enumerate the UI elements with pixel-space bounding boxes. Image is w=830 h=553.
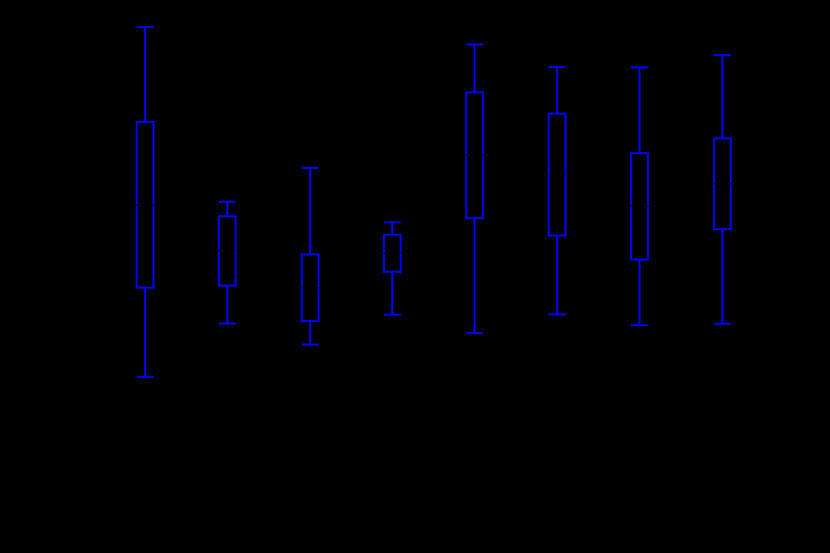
boxplot 1 whisker lower <box>144 288 146 377</box>
boxplot 6 median (black) <box>548 174 567 176</box>
boxplot 5 box <box>466 92 483 218</box>
boxplot 7 cap top <box>631 66 648 68</box>
boxplot 8 whisker upper <box>721 55 723 138</box>
boxplot 7 median (black) <box>630 205 649 207</box>
boxplot 6 cap bottom <box>549 313 566 315</box>
boxplot 7 box <box>631 153 648 259</box>
boxplot 3 whisker lower <box>309 321 311 345</box>
boxplot 8 box <box>714 138 731 229</box>
boxplot 2 cap top <box>219 201 236 203</box>
boxplot 2 whisker upper <box>226 202 228 217</box>
boxplot 5 median (black) <box>465 154 484 156</box>
boxplot 1 cap top <box>137 26 154 28</box>
boxplot 2 median (black) <box>218 250 237 252</box>
boxplot 3 whisker upper <box>309 168 311 255</box>
boxplot 1 box <box>137 122 154 288</box>
boxplot 8 whisker lower <box>721 229 723 324</box>
boxplot 3 cap top <box>302 167 319 169</box>
boxplot 3 cap bottom <box>302 344 319 346</box>
boxplot 7 cap bottom <box>631 324 648 326</box>
boxplot 6 whisker lower <box>556 236 558 315</box>
boxplot 8 median (black) <box>713 183 732 185</box>
boxplot 6 box <box>549 114 566 236</box>
boxplot 4 box <box>384 235 401 272</box>
boxplot 8 cap bottom <box>714 323 731 325</box>
boxplot 1 median (black) <box>136 204 155 206</box>
boxplot 7 whisker upper <box>639 67 641 153</box>
boxplot 6 whisker upper <box>556 67 558 114</box>
boxplot 1 cap bottom <box>137 376 154 378</box>
boxplot 5 cap bottom <box>466 332 483 334</box>
boxplot 3 box <box>302 254 319 321</box>
boxplot 2 whisker lower <box>226 286 228 324</box>
boxplot 5 whisker lower <box>474 218 476 333</box>
boxplot 5 whisker upper <box>474 44 476 92</box>
boxplot 8 cap top <box>714 54 731 56</box>
boxplot 4 cap top <box>384 221 401 223</box>
boxplot 7 whisker lower <box>639 260 641 326</box>
boxplot 4 whisker upper <box>391 222 393 234</box>
boxplot 4 whisker lower <box>391 272 393 315</box>
boxplot 2 cap bottom <box>219 323 236 325</box>
boxplot 1 whisker upper <box>144 27 146 122</box>
boxplot 3 median (black) <box>301 287 320 289</box>
boxplot 6 cap top <box>549 66 566 68</box>
boxplot 2 box <box>219 216 236 285</box>
boxplot 4 cap bottom <box>384 314 401 316</box>
boxplot 4 median (black) <box>383 252 402 254</box>
boxplot 5 cap top <box>466 43 483 45</box>
